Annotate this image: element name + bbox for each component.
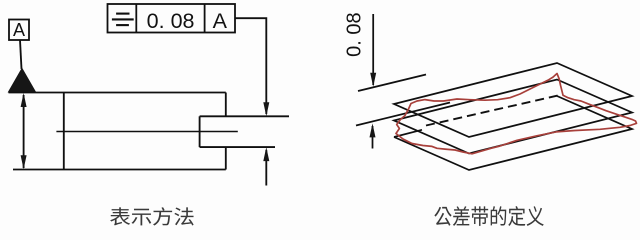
label: 表示方法 <box>110 207 193 225</box>
datum A box <box>9 20 29 41</box>
svg-text:A: A <box>213 9 228 33</box>
symmetry symbol <box>112 14 134 26</box>
lower dimension arrow tail <box>372 126 374 149</box>
hidden back edge (dashed) of bottom plane <box>426 96 558 126</box>
dimension arrowhead down <box>370 73 376 87</box>
up arrowhead <box>263 147 269 161</box>
feature control frame <box>108 4 236 33</box>
slot bottom edge + extension <box>200 146 275 148</box>
svg-text:A: A <box>13 20 25 40</box>
part left edge <box>63 93 65 170</box>
dimension arrowhead up <box>21 93 27 107</box>
dimension arrowhead down <box>21 155 27 169</box>
extension tick upper <box>358 75 426 92</box>
up arrow to slot lower extension <box>265 150 267 186</box>
tolerance plane bottom <box>394 96 632 170</box>
lower dimension arrowhead up <box>370 123 376 137</box>
part right edge upper <box>225 93 227 117</box>
datum stem <box>20 40 22 69</box>
height dimension line <box>23 95 25 168</box>
leader from FCF <box>235 18 266 114</box>
extracted median surface (red wavy) <box>396 74 637 154</box>
svg-text:0. 08: 0. 08 <box>147 9 195 33</box>
extension tick lower <box>356 103 450 126</box>
slot inner edge <box>199 116 201 147</box>
slot top edge + extension <box>200 115 289 117</box>
part top edge <box>9 92 226 94</box>
datum median plane (middle) <box>394 80 632 154</box>
part bottom edge <box>13 169 226 171</box>
slot center line <box>56 131 237 133</box>
leader arrowhead down <box>263 102 269 116</box>
datum filled triangle <box>9 69 36 93</box>
part right edge lower <box>225 147 227 169</box>
tolerance plane top <box>394 63 632 137</box>
svg-text:0. 08: 0. 08 <box>344 12 366 56</box>
label: 公差带的定义 <box>434 206 543 226</box>
0.08 dimension line <box>372 14 374 85</box>
